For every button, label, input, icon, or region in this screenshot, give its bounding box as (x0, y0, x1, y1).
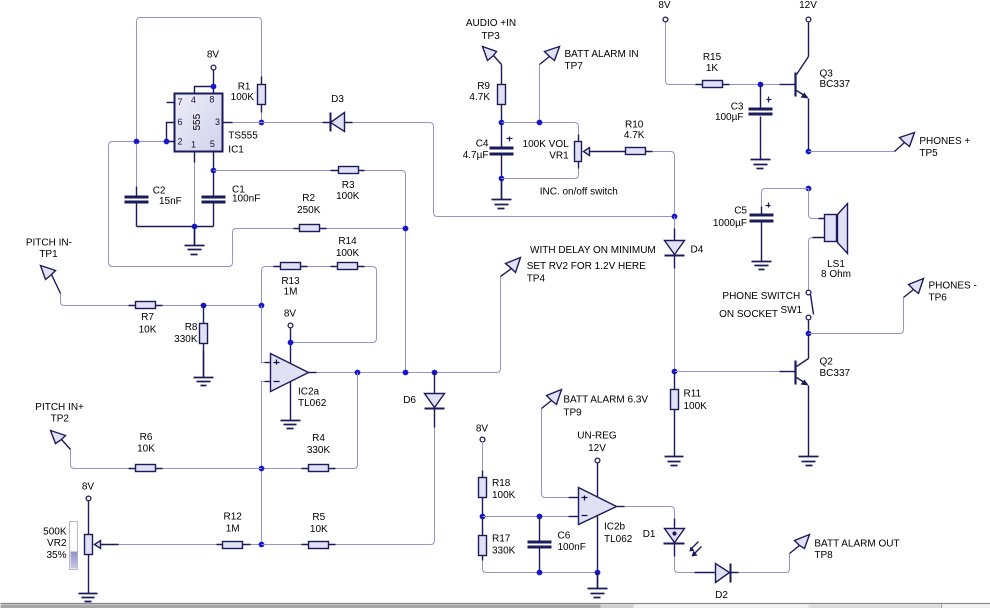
transistor Q2 (BC337) (796, 334, 809, 457)
ground (R11) (665, 457, 684, 466)
svg-text:R10: R10 (625, 119, 644, 130)
svg-text:R3: R3 (342, 180, 355, 191)
test point TP9 (BATT ALARM 6.3V) (542, 390, 562, 409)
node C6 top (537, 514, 543, 520)
wire 555 feedback loop (R1 top to pins 2/6 row) (137, 18, 262, 142)
svg-text:500K: 500K (43, 526, 67, 537)
svg-text:R9: R9 (477, 81, 490, 92)
svg-text:R12: R12 (224, 512, 243, 523)
resistor R7 (129, 302, 163, 309)
test point TP7 (BATT ALARM IN) (540, 47, 560, 65)
wire D4 to base node (674, 269, 676, 372)
svg-text:PHONE SWITCH: PHONE SWITCH (722, 291, 800, 302)
node SW1/Q2 collector (806, 331, 812, 337)
svg-text:TP2: TP2 (51, 414, 70, 425)
svg-text:12V: 12V (588, 443, 606, 454)
wire R17 bottom rail (483, 561, 598, 573)
svg-text:15nF: 15nF (159, 196, 182, 207)
wire pin 7 stub (167, 102, 175, 104)
svg-text:8V: 8V (82, 482, 95, 493)
svg-text:R2: R2 (302, 193, 315, 204)
capacitor C3 (749, 85, 773, 159)
TP9 label (563, 395, 648, 419)
svg-text:8: 8 (209, 95, 214, 105)
svg-text:TP4: TP4 (527, 274, 546, 285)
svg-text:TL062: TL062 (298, 398, 327, 409)
svg-text:2: 2 (178, 137, 183, 147)
wire R6 to inverting node (163, 468, 262, 470)
svg-text:1000µF: 1000µF (713, 218, 747, 229)
svg-text:D6: D6 (403, 395, 416, 406)
potentiometer VR2 (70, 522, 119, 570)
svg-text:D3: D3 (331, 94, 344, 105)
svg-text:10K: 10K (139, 324, 157, 335)
resistor R17 (479, 517, 487, 561)
svg-text:BC337: BC337 (820, 368, 851, 379)
wire pin 3 stub (223, 122, 233, 124)
power terminal 8V (R15) (663, 17, 668, 22)
R2 value label (297, 193, 321, 216)
ground (C5) (752, 261, 772, 270)
svg-text:BATT ALARM IN: BATT ALARM IN (565, 49, 639, 60)
R7 value label (139, 312, 157, 335)
C5 value label (713, 206, 748, 230)
ground (IC2b) (588, 573, 608, 598)
svg-text:AUDIO +IN: AUDIO +IN (466, 18, 516, 29)
diode D3 (323, 113, 353, 132)
svg-text:R4: R4 (312, 433, 325, 444)
svg-text:UN-REG: UN-REG (577, 431, 617, 442)
wire R10 right down to long wire (653, 152, 675, 217)
TP8 label (814, 539, 899, 562)
power terminal 8V (IC1) (211, 65, 216, 70)
node R18/R17 (480, 514, 486, 520)
svg-text:330K: 330K (307, 445, 331, 456)
TP1 label (26, 238, 72, 260)
svg-text:IC1: IC1 (228, 144, 244, 155)
ground (IC1 rail) (185, 227, 205, 255)
capacitor C1 (202, 173, 226, 227)
svg-text:R18: R18 (492, 478, 511, 489)
svg-text:Q3: Q3 (820, 69, 834, 80)
ground (VR2) (79, 593, 98, 602)
node R15/C3 (758, 82, 764, 88)
node C4/VR1 bottom (499, 176, 505, 182)
diode D2 (695, 564, 739, 583)
LS1 value label (821, 259, 851, 280)
wire IC2b output (617, 506, 625, 508)
svg-text:R15: R15 (703, 52, 722, 63)
wire R5 up to D6 (336, 428, 435, 545)
wire R12 to node (251, 544, 262, 546)
svg-text:8V: 8V (476, 424, 489, 435)
svg-text:12V: 12V (799, 0, 817, 11)
op-amp IC1 (TS555 timer) (175, 94, 223, 152)
resistor R8 (200, 306, 208, 351)
node R9/C4 (499, 120, 505, 126)
svg-text:VR1: VR1 (549, 151, 569, 162)
R6 value label (137, 432, 155, 455)
node pin5/C1/R3 (211, 168, 217, 174)
wire -input row (483, 516, 569, 518)
potentiometer VR1 (575, 135, 619, 169)
svg-text:R11: R11 (684, 389, 702, 400)
Q2 label (820, 357, 851, 380)
svg-text:5: 5 (210, 139, 215, 149)
svg-text:4: 4 (191, 95, 196, 105)
R14 value label (336, 236, 360, 259)
test point TP1 (PITCH IN-) (41, 266, 61, 294)
C4 value label (463, 139, 489, 161)
svg-text:BATT ALARM OUT: BATT ALARM OUT (814, 539, 899, 550)
R18 value label (492, 478, 516, 501)
svg-text:100K: 100K (336, 248, 360, 259)
R1 value label (231, 82, 255, 104)
svg-text:ON SOCKET: ON SOCKET (719, 309, 778, 320)
power terminal 8V (VR2) (86, 496, 91, 501)
wire to TP6 (809, 298, 904, 334)
svg-text:SW1: SW1 (781, 305, 803, 316)
test point TP2 (PITCH IN+) (51, 431, 71, 450)
resistor R6 (129, 465, 163, 472)
node Q3 emitter / TP5 (806, 149, 812, 155)
wire R15 to Q3 base (730, 84, 780, 86)
node pins4/8 (211, 84, 217, 90)
R4 value label (307, 433, 331, 456)
wire VR1 bottom to C4 node (502, 169, 579, 179)
wire R13 left to +input column (262, 267, 274, 306)
resistor R5 (302, 542, 336, 549)
R9 value label (469, 81, 490, 103)
svg-text:PHONES -: PHONES - (929, 281, 977, 292)
window edge bottom (1, 604, 990, 608)
node rail/ground (595, 570, 601, 576)
wire pin3 to D3 (233, 122, 323, 124)
R10 value label (624, 119, 645, 141)
svg-text:PHONES +: PHONES + (919, 136, 970, 147)
node -input/R6/R4 (259, 466, 265, 472)
svg-text:330K: 330K (174, 334, 198, 345)
wire R4 right to output row (336, 373, 358, 469)
resistor R11 (671, 372, 679, 457)
svg-text:D2: D2 (715, 590, 728, 601)
svg-text:R13: R13 (281, 276, 300, 287)
svg-text:BC337: BC337 (820, 79, 851, 90)
svg-text:10K: 10K (137, 444, 155, 455)
svg-text:10K: 10K (310, 524, 328, 535)
node 8V/R14 (288, 340, 294, 346)
C6 value label (558, 531, 586, 553)
wire R7 to +input node (163, 305, 262, 307)
Q3 label (820, 69, 851, 91)
LED D1 (664, 519, 702, 557)
svg-text:C3: C3 (731, 101, 744, 112)
SW1 label (719, 291, 803, 320)
svg-text:8V: 8V (207, 50, 220, 61)
node ground rail (192, 224, 198, 230)
svg-text:PITCH IN+: PITCH IN+ (35, 402, 84, 413)
wire to TP5 (809, 151, 895, 153)
node R8 tap (201, 303, 207, 309)
svg-text:35%: 35% (46, 550, 66, 561)
svg-text:TP7: TP7 (565, 61, 584, 72)
capacitor C2 (125, 144, 149, 227)
wire wiper to R12 (119, 544, 217, 546)
TP7 label (565, 49, 639, 72)
wire 8V to IC2a power pin and ground (290, 329, 292, 420)
wire D3 to R10/D4 node (353, 123, 675, 217)
wire TP1 to R7 (61, 294, 129, 306)
resistor R4 (302, 465, 336, 472)
svg-text:BATT ALARM 6.3V: BATT ALARM 6.3V (563, 395, 648, 406)
ground (R8) (194, 351, 214, 386)
node output/R4 (355, 370, 361, 376)
power terminal 12V (806, 17, 811, 22)
svg-text:TP3: TP3 (481, 31, 500, 42)
node C6 bottom (537, 570, 543, 576)
R17 value label (492, 534, 516, 557)
resistor R10 (619, 148, 653, 155)
wire +input column (262, 306, 265, 363)
ground (Q2) (799, 457, 819, 466)
power terminal 8V (IC2a) (288, 323, 293, 328)
capacitor C6 (528, 517, 552, 573)
resistor R15 (696, 81, 730, 88)
VR2 value label (43, 526, 67, 561)
transistor Q3 (BC337) (796, 23, 809, 152)
svg-text:D1: D1 (643, 529, 656, 540)
svg-text:4.7µF: 4.7µF (463, 150, 489, 161)
C1 value label (232, 184, 260, 204)
ground (IC2a) (281, 420, 301, 429)
wire C5 row (762, 189, 809, 207)
svg-text:1M: 1M (226, 524, 240, 535)
svg-text:C2: C2 (153, 185, 166, 196)
test point TP4 (501, 258, 521, 277)
resistor R1 (258, 77, 266, 123)
op-amp IC2b (579, 488, 617, 525)
svg-text:R8: R8 (185, 322, 198, 333)
R8 value label (174, 322, 198, 345)
svg-text:250K: 250K (297, 205, 321, 216)
svg-text:C5: C5 (734, 206, 747, 217)
svg-text:1: 1 (191, 139, 196, 149)
test point TP5 (PHONES +) (895, 133, 915, 152)
wire 8V to R15 (666, 23, 696, 85)
wire pin 5 down (213, 152, 215, 171)
svg-text:TP1: TP1 (39, 249, 58, 260)
node pin3/R1 (259, 120, 265, 126)
resistor R14 (331, 263, 365, 270)
test point TP8 (BATT ALARM OUT) (790, 535, 810, 554)
test point TP3 (AUDIO +IN) (483, 47, 502, 65)
svg-text:100nF: 100nF (232, 193, 260, 204)
svg-text:3: 3 (215, 117, 220, 127)
svg-text:D4: D4 (691, 245, 704, 256)
svg-text:100K: 100K (492, 490, 516, 501)
wire 8V to VR2 (88, 502, 90, 535)
node R7/R8/R13 (259, 303, 265, 309)
R5 value label (310, 512, 328, 535)
wire pin2 row and detour to R2 (109, 142, 294, 267)
svg-text:TP9: TP9 (563, 407, 582, 418)
speaker LS1 (809, 189, 848, 291)
test point TP6 (PHONES -) (904, 279, 924, 298)
R3 value label (336, 180, 360, 202)
svg-text:R1: R1 (238, 82, 251, 93)
resistor R13 (274, 263, 308, 270)
TP3 label (466, 18, 516, 42)
svg-text:R7: R7 (141, 312, 154, 323)
wire pin 6 stub tied to pin 2 (167, 123, 175, 142)
svg-text:1M: 1M (284, 287, 298, 298)
node pin2/C2/loop (134, 139, 140, 145)
resistor R9 (498, 65, 506, 123)
svg-text:4.7K: 4.7K (469, 92, 490, 103)
svg-text:R6: R6 (140, 432, 153, 443)
R11 value label (684, 389, 708, 412)
wire node to R5 (262, 544, 302, 546)
wire D2 to TP8 (739, 554, 790, 573)
VR1 value label (523, 139, 570, 162)
node R2/R3 (403, 226, 409, 232)
node R12/R5 (259, 542, 265, 548)
wire R14 right to 8V rail of IC2a (291, 267, 377, 343)
svg-text:SET RV2 FOR 1.2V HERE: SET RV2 FOR 1.2V HERE (527, 261, 646, 272)
node output/D6 (432, 370, 438, 376)
wire 12V power pin through IC2b to rail (597, 464, 599, 573)
svg-text:IC2b: IC2b (604, 522, 626, 533)
svg-text:IC2a: IC2a (298, 387, 320, 398)
IC2b label (604, 522, 633, 546)
node pin2 junction (164, 139, 170, 145)
TP5 label (919, 136, 970, 159)
resistor R12 (217, 542, 251, 549)
svg-text:TP5: TP5 (919, 148, 938, 159)
C2 value label (153, 185, 182, 207)
wire TP2 to R6 (71, 450, 129, 469)
power terminal 8V (R18) (480, 437, 485, 442)
svg-text:8V: 8V (284, 309, 297, 320)
svg-text:TL062: TL062 (604, 534, 633, 545)
IC2a label (298, 387, 327, 409)
ground (C4) (492, 179, 512, 209)
resistor R3 (331, 167, 365, 174)
node TP7 row (537, 120, 543, 126)
power terminal UN-REG 12V (577, 431, 617, 455)
R15 value label (703, 52, 722, 74)
svg-text:TP8: TP8 (814, 550, 833, 561)
wire pin5 to R3 (214, 170, 331, 172)
wire base row to Q2 (675, 371, 780, 373)
svg-text:C4: C4 (476, 139, 489, 150)
node D4/R11/base (672, 369, 678, 375)
svg-text:100K: 100K (684, 401, 708, 412)
R12 value label (224, 512, 243, 535)
wire D1 to D2 (675, 557, 695, 573)
wire TP9 to +input (542, 409, 569, 498)
wire pin 1 down (194, 152, 196, 163)
svg-text:INC. on/off switch: INC. on/off switch (540, 186, 618, 197)
svg-text:R14: R14 (338, 236, 357, 247)
svg-text:6: 6 (178, 117, 183, 127)
wire top row to VR1 (502, 123, 579, 135)
svg-text:VR2: VR2 (47, 538, 67, 549)
svg-text:C6: C6 (558, 531, 571, 542)
diode D6 (425, 373, 445, 428)
capacitor C5 (750, 203, 774, 261)
svg-text:Q2: Q2 (820, 357, 834, 368)
svg-text:330K: 330K (492, 546, 516, 557)
wire pins 4 and 8 to 8V (195, 70, 214, 94)
svg-text:8 Ohm: 8 Ohm (821, 269, 851, 280)
capacitor C4 (490, 123, 514, 179)
TP2 label (35, 402, 84, 425)
svg-text:1K: 1K (706, 63, 719, 74)
diode D4 (665, 217, 685, 269)
svg-text:PITCH IN-: PITCH IN- (26, 238, 72, 249)
svg-text:100nF: 100nF (558, 542, 586, 553)
wire IC2a output row (309, 372, 317, 374)
svg-text:100K: 100K (336, 191, 360, 202)
ground (C3) (751, 159, 771, 169)
svg-text:TS555: TS555 (228, 131, 258, 142)
wire R13 to R14 (308, 266, 331, 268)
switch SW1 (806, 290, 813, 330)
svg-text:7: 7 (178, 97, 183, 107)
wire C2/C1 bottom rail (137, 226, 214, 228)
svg-text:100K: 100K (231, 92, 255, 103)
wire R2 to R3 column (327, 228, 406, 230)
node D4 top (672, 214, 678, 220)
svg-text:R17: R17 (492, 534, 511, 545)
wire R3 right down to output row (365, 171, 406, 373)
TP6 label (929, 281, 977, 304)
R13 value label (281, 276, 300, 298)
svg-text:WITH DELAY ON MINIMUM: WITH DELAY ON MINIMUM (530, 245, 656, 256)
wire TP7 down (539, 65, 541, 123)
svg-text:4.7K: 4.7K (624, 130, 645, 141)
wire R4 to inverting node (262, 468, 302, 470)
svg-text:100µF: 100µF (715, 112, 744, 123)
svg-text:R5: R5 (312, 512, 325, 523)
svg-text:100K VOL: 100K VOL (523, 139, 570, 150)
svg-text:555: 555 (192, 113, 203, 130)
TP4 note label (527, 245, 656, 284)
op-amp IC2a (271, 354, 309, 392)
resistor R18 (479, 442, 487, 517)
node output/R2R3 (403, 370, 409, 376)
wire -input column down to R4/R5 (265, 381, 271, 383)
svg-text:TP6: TP6 (929, 292, 948, 303)
C3 value label (715, 101, 744, 123)
resistor R2 (294, 225, 327, 232)
svg-text:8V: 8V (658, 0, 671, 11)
wire VR2 to ground (88, 555, 90, 593)
IC1 label (228, 131, 258, 156)
node C5 row (806, 186, 812, 192)
